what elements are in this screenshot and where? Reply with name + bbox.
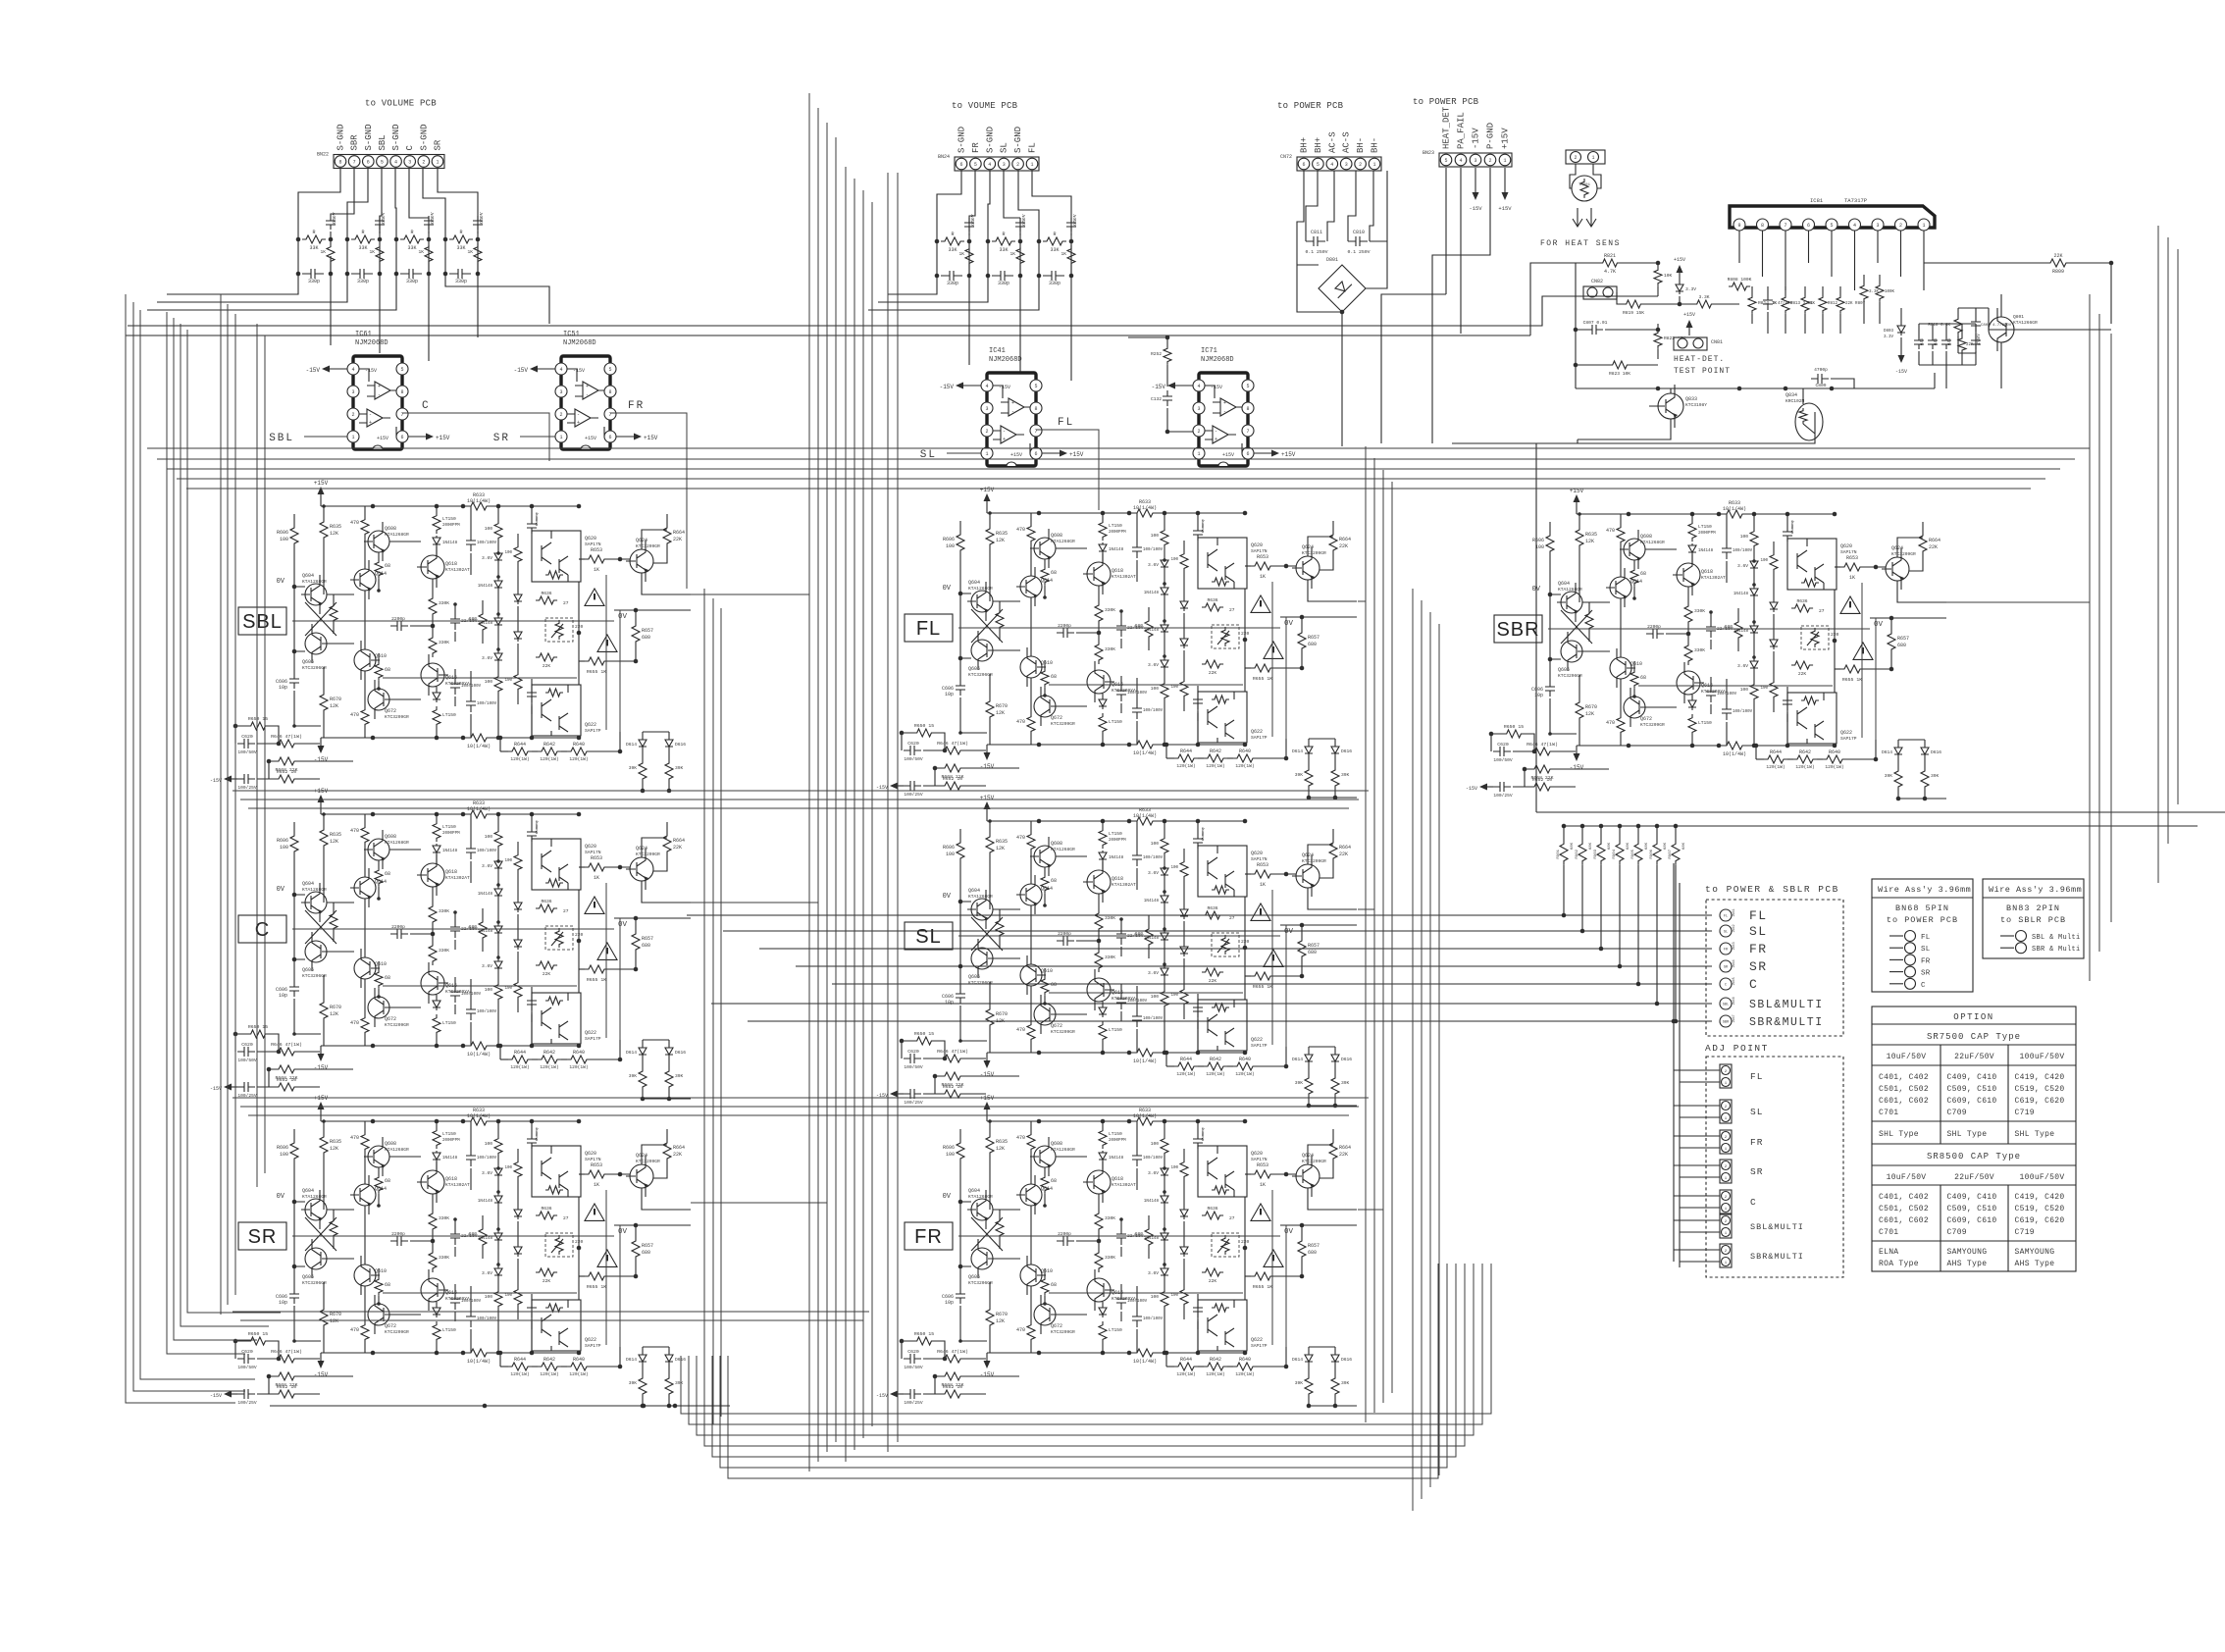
svg-text:-15V: -15V [1469,205,1482,212]
svg-text:0.01: 0.01 [1919,338,1924,345]
svg-text:C619, C620: C619, C620 [2015,1216,2065,1225]
svg-text:C601, C602: C601, C602 [1879,1216,1929,1225]
node [1889,947,1903,949]
wire feed [759,948,1712,950]
resistor R818 6.8K [1954,316,1962,336]
svg-text:68K: 68K [1571,842,1575,850]
svg-text:Q834: Q834 [1785,392,1797,398]
svg-text:SHL Type: SHL Type [1947,1130,1988,1139]
svg-text:IC61: IC61 [355,331,372,338]
svg-text:S-GND: S-GND [364,124,374,150]
wire [1563,865,1565,915]
resistor R816 22K [1958,336,1966,353]
capacitor C809 4700p [1811,374,1829,384]
svg-text:4: 4 [1459,158,1462,164]
node label FL [905,614,953,642]
power +15V [1679,273,1681,279]
node SBR&MULTI [1720,1015,1732,1027]
resistor R902 68K [1580,824,1585,829]
svg-text:S-GND: S-GND [957,127,967,153]
svg-text:NJM2068D: NJM2068D [989,356,1022,364]
node SL [947,452,981,454]
svg-text:C: C [1725,984,1727,988]
capacitor C805 0.47/50V [1763,294,1773,310]
resistor R811 3.3K [1860,283,1868,302]
wire [1674,1070,1720,1082]
svg-text:10uF/50V: 10uF/50V [1887,1173,1927,1182]
svg-text:Q801: Q801 [2013,314,2024,320]
connector CN82 [1583,286,1617,299]
connector CN7 SBR&MULTI [1720,1244,1732,1267]
svg-text:IC71: IC71 [1201,347,1217,355]
svg-text:SBL: SBL [242,611,283,633]
svg-text:8: 8 [1761,223,1764,229]
wire feed [687,914,1712,916]
pin [1849,219,1861,231]
svg-text:4: 4 [1853,223,1856,229]
svg-text:C519, C520: C519, C520 [2015,1205,2065,1213]
svg-text:to VOUME PCB: to VOUME PCB [952,101,1018,111]
wire [126,263,1576,336]
svg-text:5: 5 [1444,158,1447,164]
wire [1637,865,1639,984]
svg-text:FR: FR [1921,957,1931,965]
resistor R823 10K [1609,361,1630,369]
svg-text:FL: FL [1028,142,1038,153]
svg-text:S-GND: S-GND [985,127,995,153]
svg-text:AC-S: AC-S [1327,131,1337,153]
node [2000,935,2014,937]
svg-text:5: 5 [1830,223,1833,229]
svg-text:68K: 68K [1627,842,1630,850]
svg-text:SL: SL [1921,946,1931,954]
wire left rail [1575,263,1577,365]
wire bottom nested bus [681,1264,1491,1414]
svg-text:SBL: SBL [269,433,294,444]
svg-text:SBR: SBR [1496,619,1539,641]
svg-text:1: 1 [436,160,439,166]
capacitor 0.01 [1941,336,1951,349]
svg-text:TA7317P: TA7317P [1844,197,1867,204]
wire [1674,1250,1720,1262]
svg-text:C509, C510: C509, C510 [1947,1085,1997,1094]
pin [1757,219,1769,231]
svg-text:SBR & Multi: SBR & Multi [2032,946,2081,954]
svg-text:BN68 5PIN: BN68 5PIN [1895,903,1949,913]
svg-text:SAMYOUNG: SAMYOUNG [2015,1248,2055,1257]
wire [1674,1220,1720,1232]
svg-text:S-GND: S-GND [1013,127,1023,153]
wire bottom rail [270,1405,730,1407]
svg-text:5: 5 [974,162,977,168]
node label C [238,915,286,943]
svg-text:6: 6 [1807,223,1810,229]
svg-text:JW46: JW46 [1733,997,1736,1005]
capacitor C811 0.1 250V [1306,236,1325,246]
svg-text:5: 5 [1317,162,1319,168]
svg-text:FL: FL [1724,915,1728,919]
node label FR [905,1222,953,1250]
svg-text:SR: SR [493,433,510,444]
svg-text:-15V: -15V [1895,369,1907,375]
svg-text:100uF/50V: 100uF/50V [2020,1173,2065,1182]
svg-text:C801 4.7/250V: C801 4.7/250V [1981,323,2012,328]
svg-text:R904: R904 [1613,849,1617,858]
svg-text:1: 1 [1503,158,1506,164]
svg-text:CN72: CN72 [1280,154,1292,160]
wire top rails right [1536,811,2225,813]
svg-text:IC51: IC51 [563,331,580,338]
resistor R903 68K [1599,824,1604,829]
svg-text:2: 2 [1016,162,1019,168]
svg-text:NJM2068D: NJM2068D [355,339,388,347]
node label SR [238,1222,286,1250]
svg-text:ADJ POINT: ADJ POINT [1705,1043,1769,1054]
svg-text:FL: FL [916,618,941,640]
svg-text:SBR: SBR [350,134,360,151]
svg-text:SBL: SBL [378,134,388,150]
connector CN72 [1297,157,1381,171]
svg-text:6: 6 [367,160,370,166]
capacitor C132 100/25V [1163,390,1172,406]
svg-text:0.1 250V: 0.1 250V [1305,249,1327,255]
capacitor C801 4.7/250V [1971,316,1981,332]
svg-text:3: 3 [1876,223,1879,229]
svg-text:C132: C132 [1151,396,1162,402]
svg-text:KRC102M: KRC102M [1785,398,1805,404]
svg-text:0.47/50V: 0.47/50V [1773,301,1793,306]
svg-text:Wire Ass'y 3.96mm: Wire Ass'y 3.96mm [1878,885,1971,895]
wire feed [723,930,1712,932]
wire BN23 drops [1446,168,1461,334]
svg-text:IC41: IC41 [989,347,1006,355]
svg-text:R819 15K: R819 15K [1623,310,1644,316]
svg-text:SR8500 CAP Type: SR8500 CAP Type [1927,1152,2021,1162]
svg-text:JW43: JW43 [1733,942,1736,950]
svg-text:C: C [422,400,431,412]
svg-text:0.1 250V: 0.1 250V [1347,249,1370,255]
svg-text:22K: 22K [2053,253,2062,259]
svg-text:to SBLR PCB: to SBLR PCB [2000,915,2066,925]
svg-text:1: 1 [1030,162,1033,168]
svg-text:4: 4 [394,160,397,166]
svg-text:D803: D803 [1884,330,1894,334]
svg-text:BN83 2PIN: BN83 2PIN [2006,903,2060,913]
svg-text:SL: SL [1000,142,1009,153]
svg-text:FOR HEAT SENS: FOR HEAT SENS [1540,239,1621,248]
svg-text:3.3V: 3.3V [1685,286,1696,292]
svg-text:68K: 68K [1608,842,1612,850]
svg-text:22uF/50V: 22uF/50V [1954,1053,1994,1061]
svg-text:C: C [1921,982,1926,990]
svg-text:22uF/50V: 22uF/50V [1954,1173,1994,1182]
svg-text:FR: FR [971,142,981,153]
svg-text:AHS Type: AHS Type [2015,1260,2055,1268]
svg-text:-15V: -15V [1472,128,1481,149]
wire feed [796,965,1712,967]
table Wire Ass'y 3.96mm BN68 5PIN [1872,879,1973,992]
svg-text:BN24: BN24 [938,154,950,160]
wire [1581,865,1583,931]
thermistor TH801 [1572,176,1597,201]
node C [402,413,549,461]
node [1889,983,1903,985]
svg-text:C501, C502: C501, C502 [1879,1085,1929,1094]
wire feed [748,1020,1712,1022]
svg-text:CN81: CN81 [1711,339,1723,345]
wire bottom horizontals [233,1311,869,1313]
svg-text:P-GND: P-GND [1486,123,1496,149]
svg-text:R818 6.8K: R818 6.8K [1928,324,1950,328]
svg-text:Q833: Q833 [1685,396,1697,402]
wire far right vertical bus [2089,294,2091,981]
resistor R906 68K [1655,824,1660,829]
wire bottom rail [1576,387,1935,389]
svg-text:3.3V: 3.3V [1884,336,1894,339]
op-amp IC41 NJM2068D [940,373,1084,466]
svg-text:SBR: SBR [1723,1021,1730,1025]
svg-text:FR: FR [628,400,645,412]
svg-text:SR: SR [1921,970,1931,978]
resistor [1819,294,1827,314]
svg-text:NJM2068D: NJM2068D [1201,356,1234,364]
wire [1675,865,1677,1021]
svg-text:SBL&MULTI: SBL&MULTI [1750,1222,1804,1232]
op-amp U IC81 TA7317P body [1730,206,1935,228]
pin [1826,219,1837,231]
node label SBL [238,607,286,635]
wire [1600,865,1602,949]
resistor [1782,294,1789,314]
svg-text:68K: 68K [1589,842,1593,850]
svg-text:+15V: +15V [1683,312,1695,318]
node SBL [304,436,347,438]
wire pin drops BN24 [937,171,961,235]
amplifier channel block C [210,788,691,1101]
resistor R819 15K [1623,300,1644,308]
pin [1733,219,1745,231]
resistor R808 100K [1729,283,1750,290]
op-amp IC51 NJM2068D [514,356,658,449]
svg-text:68K: 68K [1645,842,1649,850]
svg-text:SHL Type: SHL Type [1879,1130,1919,1139]
resistor R814 1K [1748,294,1756,314]
svg-text:SR7500 CAP Type: SR7500 CAP Type [1927,1032,2021,1042]
node [1889,971,1903,973]
svg-text:10K: 10K [1664,273,1673,279]
wire pin drops BN22 [298,169,340,233]
svg-text:to POWER & SBLR PCB: to POWER & SBLR PCB [1705,884,1839,895]
wire mid horizontal bus [147,447,2090,449]
svg-text:SR: SR [1749,959,1768,974]
svg-text:SR: SR [1750,1166,1763,1177]
svg-text:HEAT-DET.: HEAT-DET. [1674,355,1725,364]
svg-text:R823 10K: R823 10K [1609,371,1630,377]
svg-text:2: 2 [1359,162,1362,168]
wire inter-row bus 2 [233,1097,1369,1099]
svg-text:C501, C502: C501, C502 [1879,1205,1929,1213]
svg-text:SBR&MULTI: SBR&MULTI [1749,1016,1824,1029]
svg-text:R903: R903 [1594,849,1598,858]
node label SL [905,922,953,950]
svg-text:R808 100K: R808 100K [1728,277,1752,283]
svg-text:C: C [1750,1197,1757,1208]
power +15V [1688,326,1690,336]
svg-text:C519, C520: C519, C520 [2015,1085,2065,1094]
resistor R901 68K [1562,824,1567,829]
resistor [1801,294,1809,314]
svg-text:JW45: JW45 [1733,977,1736,985]
svg-text:4.7K: 4.7K [1604,269,1616,275]
svg-text:47/50V: 47/50V [1976,334,1981,345]
power -15V [1900,345,1902,355]
svg-text:JW42: JW42 [1733,924,1736,932]
svg-text:KTA1266GR: KTA1266GR [2013,320,2038,326]
svg-text:2: 2 [1488,158,1491,164]
svg-text:SL: SL [915,926,941,948]
svg-text:SL: SL [1724,931,1728,935]
node SBL&MULTI [1720,998,1732,1009]
svg-text:ROA Type: ROA Type [1879,1260,1919,1268]
svg-text:68K: 68K [1682,842,1686,850]
svg-text:Wire Ass'y 3.96mm: Wire Ass'y 3.96mm [1989,885,2082,895]
amplifier channel block SBL [210,480,691,793]
svg-text:BH+: BH+ [1300,137,1310,153]
svg-text:2: 2 [1899,223,1902,229]
svg-text:S-GND: S-GND [419,124,429,150]
svg-text:BN23: BN23 [1423,150,1434,156]
svg-text:R901: R901 [1557,849,1561,858]
power -15V [1475,168,1476,192]
svg-text:1: 1 [1591,155,1594,161]
connector CN3 FR [1720,1130,1732,1154]
resistor R822 10K [1654,330,1662,349]
svg-text:R907: R907 [1669,849,1673,858]
svg-text:FL: FL [1750,1071,1763,1082]
svg-text:C: C [405,145,415,151]
pin [1780,219,1791,231]
node [1889,958,1903,960]
svg-text:C701: C701 [1879,1109,1898,1117]
svg-text:3.3K: 3.3K [1869,290,1880,294]
amplifier channel block FL [876,487,1357,800]
svg-text:JW44: JW44 [1733,959,1736,967]
svg-text:C419, C420: C419, C420 [2015,1073,2065,1082]
amplifier channel block SL [876,795,1357,1108]
transistor Q833 KTC3198Y [1658,393,1683,419]
svg-text:8: 8 [338,160,341,166]
svg-text:to POWER PCB: to POWER PCB [1413,97,1479,107]
node SL [1720,925,1732,937]
svg-text:C609, C610: C609, C610 [1947,1216,1997,1225]
svg-text:BH+: BH+ [1314,137,1323,153]
svg-text:1K: 1K [1810,302,1816,306]
svg-text:S-GND: S-GND [391,124,401,150]
wire right-mid vertical bus [1365,446,1367,1422]
svg-text:S-GND: S-GND [336,124,346,150]
resistor R810 100K [1876,283,1884,302]
svg-text:FL: FL [1921,934,1931,942]
svg-text:0.01: 0.01 [1946,338,1951,345]
diode bridge D801 [1319,265,1366,312]
svg-text:C809: C809 [1815,383,1826,388]
wire inter-row bus 1 [233,790,1369,792]
connector BN22 [334,155,444,169]
svg-text:1: 1 [1372,162,1375,168]
node C [1720,978,1732,990]
svg-text:R905: R905 [1631,849,1635,858]
transistor Q834 KRC102M [1795,403,1823,440]
svg-text:BH-: BH- [1356,137,1366,153]
op-amp IC61 NJM2068D [306,356,450,449]
amplifier channel block SR [210,1095,691,1408]
svg-text:ELNA: ELNA [1879,1248,1898,1257]
resistor [1837,294,1844,314]
wire [1674,863,1680,1267]
resistor R809 22K [2046,259,2070,267]
svg-text:SL: SL [1750,1107,1763,1117]
svg-text:0.01: 0.01 [1933,338,1938,345]
svg-text:C609, C610: C609, C610 [1947,1097,1997,1106]
capacitor 0.01 [1914,336,1924,349]
svg-text:to POWER PCB: to POWER PCB [1887,915,1958,925]
svg-text:CN82: CN82 [1591,279,1603,284]
amplifier channel block SBR [1466,488,1946,800]
svg-text:100uF/50V: 100uF/50V [2020,1053,2065,1061]
capacitor C804 47/50V [1971,336,1981,349]
resistor R815 3.3K [1693,300,1715,308]
svg-text:C701: C701 [1879,1228,1898,1237]
connector CN5 C [1720,1190,1732,1213]
svg-text:7: 7 [353,160,356,166]
svg-text:C419, C420: C419, C420 [2015,1193,2065,1202]
svg-text:BN22: BN22 [317,152,329,158]
op-amp IC71 NJM2068D [1152,373,1296,466]
wire feed [711,1003,1712,1005]
capacitor 0.01 [1928,336,1938,349]
svg-text:68K: 68K [1664,842,1668,850]
svg-text:4700p: 4700p [1814,367,1828,373]
svg-text:AC-S: AC-S [1342,131,1352,153]
svg-text:SAMYOUNG: SAMYOUNG [1947,1248,1988,1257]
pin [1895,219,1907,231]
svg-text:R821: R821 [1604,253,1616,259]
resistor R907 68K [1674,824,1679,829]
svg-text:R809: R809 [2052,269,2064,275]
svg-text:C: C [1749,977,1758,992]
svg-text:JW41: JW41 [1733,908,1736,916]
node FL [1036,430,1099,510]
svg-text:AHS Type: AHS Type [1947,1260,1988,1268]
wire rc outputs [167,274,298,294]
connector CN1 FL [1720,1064,1732,1088]
node FR [1720,943,1732,955]
svg-text:NJM2068D: NJM2068D [563,339,596,347]
svg-text:10uF/50V: 10uF/50V [1887,1053,1927,1061]
connector CN2 SL [1720,1100,1732,1123]
svg-text:C807 0.01: C807 0.01 [1583,320,1608,326]
table OPTION [1872,1007,2076,1271]
svg-text:4: 4 [988,162,991,168]
node [2000,947,2014,949]
svg-text:+15V: +15V [1674,257,1685,263]
svg-text:JW47: JW47 [1733,1014,1736,1022]
node SR [1720,960,1732,972]
capacitor C807 0.01 [1585,325,1603,335]
svg-text:R902: R902 [1576,849,1579,858]
diode D802 3.3V [1676,283,1683,294]
svg-text:SBL&MULTI: SBL&MULTI [1749,999,1824,1011]
